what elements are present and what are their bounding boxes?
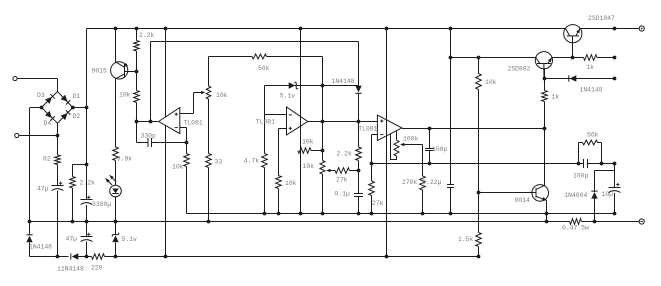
svg-text:2.2k: 2.2k	[139, 32, 155, 39]
svg-text:82: 82	[43, 155, 51, 162]
svg-text:0.47 5w: 0.47 5w	[562, 224, 589, 231]
svg-text:11N4148: 11N4148	[57, 265, 84, 272]
svg-text:2SD1047: 2SD1047	[588, 15, 615, 22]
svg-text:D2: D2	[73, 113, 81, 120]
svg-text:100k: 100k	[403, 135, 419, 142]
svg-text:220: 220	[91, 265, 103, 272]
svg-text:1k: 1k	[586, 64, 594, 71]
svg-text:56k: 56k	[587, 132, 599, 139]
svg-text:10k: 10k	[285, 180, 297, 187]
svg-text:5.1v: 5.1v	[280, 93, 296, 100]
svg-text:D1: D1	[73, 93, 81, 100]
svg-text:10k: 10k	[172, 163, 184, 170]
svg-text:33: 33	[215, 158, 223, 165]
svg-text:2.2k: 2.2k	[337, 150, 353, 157]
svg-text:0.1µ: 0.1µ	[335, 190, 351, 197]
svg-text:27k: 27k	[372, 200, 384, 207]
svg-text:1N4148: 1N4148	[29, 244, 52, 251]
svg-text:1N4148: 1N4148	[580, 87, 603, 94]
svg-text:100p: 100p	[573, 173, 589, 180]
svg-text:D4: D4	[44, 120, 52, 127]
svg-text:47µ: 47µ	[37, 185, 49, 192]
svg-text:9015: 9015	[92, 68, 108, 75]
svg-text:1.5k: 1.5k	[458, 236, 474, 243]
svg-text:10k: 10k	[303, 163, 315, 170]
svg-text:100p: 100p	[432, 146, 448, 153]
svg-text:2.2k: 2.2k	[80, 179, 96, 186]
svg-text:3.9k: 3.9k	[117, 156, 133, 163]
svg-text:10µ: 10µ	[602, 191, 614, 198]
svg-text:0.22µ: 0.22µ	[422, 179, 441, 186]
svg-text:TL081: TL081	[256, 118, 275, 125]
svg-text:10k: 10k	[485, 79, 497, 86]
svg-text:10k: 10k	[302, 138, 314, 145]
svg-text:9014: 9014	[515, 197, 531, 204]
svg-text:10k: 10k	[216, 92, 228, 99]
svg-text:3300µ: 3300µ	[92, 201, 111, 208]
svg-text:TL081: TL081	[184, 119, 203, 126]
svg-text:1N4148: 1N4148	[332, 78, 355, 85]
svg-text:270k: 270k	[402, 179, 418, 186]
svg-text:2SD882: 2SD882	[508, 66, 531, 73]
svg-text:5.1v: 5.1v	[122, 236, 138, 243]
svg-text:27k: 27k	[336, 176, 348, 183]
svg-text:1k: 1k	[552, 94, 560, 101]
svg-text:D3: D3	[37, 92, 45, 99]
svg-text:1N4004: 1N4004	[564, 192, 587, 199]
svg-text:330p: 330p	[141, 133, 157, 140]
svg-text:4.7k: 4.7k	[244, 157, 260, 164]
svg-text:10k: 10k	[119, 92, 131, 99]
svg-text:47µ: 47µ	[66, 236, 78, 243]
svg-text:56k: 56k	[258, 65, 270, 72]
svg-text:TL081: TL081	[358, 126, 377, 133]
